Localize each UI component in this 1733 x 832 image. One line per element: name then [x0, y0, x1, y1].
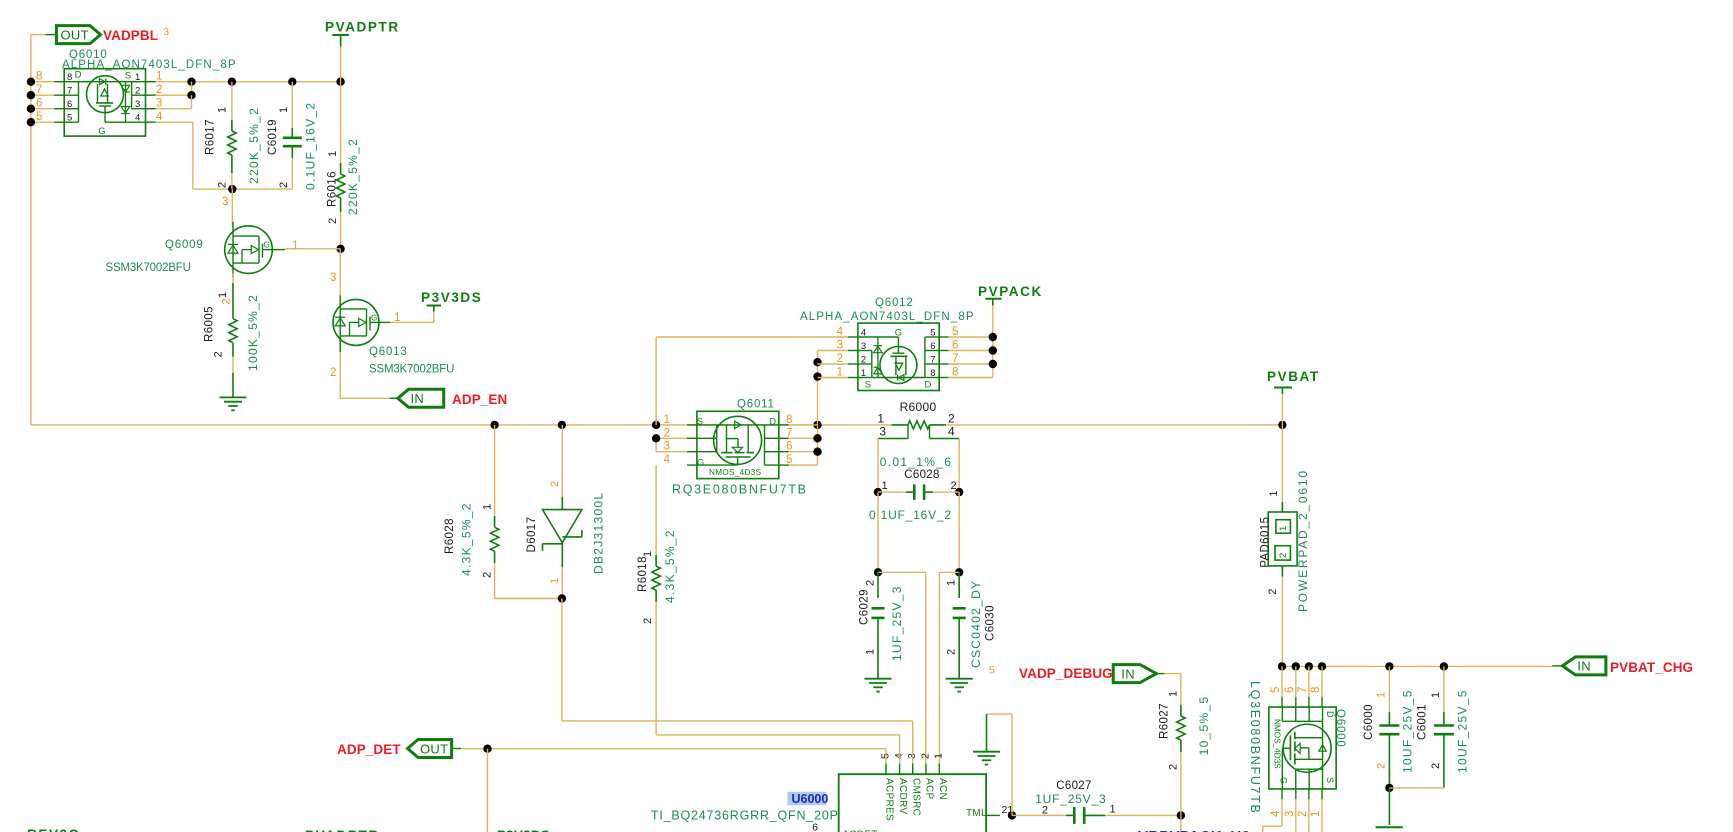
- svg-text:1: 1: [135, 72, 140, 83]
- svg-text:2: 2: [1267, 589, 1279, 595]
- svg-text:4.3K_5%_2: 4.3K_5%_2: [663, 529, 677, 603]
- transistor Q6009 (SSM3K7002BFU): [225, 189, 273, 277]
- diode D6017 (DB2J31300L): [526, 425, 605, 721]
- resistor R6005 100K: [204, 273, 260, 397]
- capacitor C6000 10UF with ground: [1363, 666, 1414, 827]
- svg-text:4: 4: [156, 111, 163, 123]
- svg-text:ADP_EN: ADP_EN: [452, 392, 507, 407]
- svg-text:PVBAT: PVBAT: [1267, 369, 1320, 384]
- svg-text:R6027: R6027: [1159, 703, 1171, 739]
- wire TML node with ground: [973, 714, 1016, 820]
- svg-text:4: 4: [135, 113, 140, 124]
- svg-text:S: S: [697, 417, 703, 427]
- svg-text:TI_BQ24736RGRR_QFN_20P: TI_BQ24736RGRR_QFN_20P: [651, 809, 839, 823]
- net label ADP_EN: [452, 392, 507, 407]
- svg-text:1: 1: [482, 504, 494, 510]
- svg-text:R6016: R6016: [326, 171, 338, 207]
- svg-text:D6017: D6017: [526, 517, 538, 553]
- svg-text:5: 5: [989, 665, 996, 677]
- power flag P3V3DS: [421, 290, 482, 322]
- svg-text:8: 8: [36, 71, 42, 83]
- wire ACPRES from ADP_DET: [488, 749, 887, 764]
- wire ACDRV from R6018: [656, 735, 900, 764]
- svg-text:PVADPTR: PVADPTR: [305, 828, 380, 832]
- svg-text:2: 2: [864, 580, 876, 586]
- svg-text:POWERPAD_2_0610: POWERPAD_2_0610: [1296, 469, 1310, 612]
- svg-text:2: 2: [1375, 763, 1387, 769]
- svg-text:2: 2: [278, 182, 290, 188]
- svg-text:7: 7: [36, 84, 42, 96]
- svg-text:1: 1: [549, 578, 561, 584]
- svg-text:ALPHA_AON7403L_DFN_8P: ALPHA_AON7403L_DFN_8P: [800, 311, 975, 323]
- svg-text:7: 7: [930, 355, 935, 366]
- svg-text:5: 5: [1270, 687, 1282, 693]
- svg-text:1: 1: [1167, 691, 1179, 697]
- svg-text:2: 2: [664, 427, 670, 439]
- svg-text:1: 1: [882, 480, 888, 492]
- svg-text:3: 3: [664, 441, 670, 453]
- svg-text:1: 1: [156, 71, 162, 83]
- label Q6010: [62, 49, 237, 71]
- wire R6016 node down to Q6013: [330, 249, 340, 299]
- port IN ADP_EN: [390, 389, 444, 407]
- capacitor C6001 10UF: [1389, 666, 1469, 788]
- svg-text:1: 1: [217, 292, 229, 298]
- transistor Q6011 (RQ3E080BNFU7TB): [697, 411, 779, 478]
- wires Q6010 right pins and gate node: [146, 71, 345, 194]
- svg-text:1: 1: [1278, 526, 1289, 531]
- svg-text:2: 2: [919, 753, 931, 759]
- svg-text:1: 1: [664, 414, 670, 426]
- transistor Q6010 (ALPHA_AON7403L_DFN_8P): [64, 69, 145, 137]
- svg-text:D: D: [924, 380, 931, 391]
- wires Q6011 pins and right tie bus: [652, 351, 822, 467]
- svg-text:G: G: [264, 241, 270, 250]
- svg-text:2: 2: [837, 353, 843, 365]
- svg-text:SSM3K7002BFU: SSM3K7002BFU: [106, 262, 191, 274]
- wire left rail from OUT port down to main bus: [31, 35, 46, 425]
- svg-text:ACPRES: ACPRES: [884, 778, 895, 821]
- svg-text:4: 4: [1270, 810, 1282, 817]
- resistor R6016 220K: [326, 82, 359, 253]
- power flag PVADPTR: [325, 20, 400, 82]
- svg-text:5: 5: [67, 113, 72, 124]
- svg-text:ALPHA_AON7403L_DFN_8P: ALPHA_AON7403L_DFN_8P: [62, 59, 237, 71]
- svg-text:C6027: C6027: [1056, 780, 1091, 792]
- svg-text:8: 8: [952, 367, 958, 379]
- svg-text:R6018: R6018: [637, 556, 649, 592]
- svg-text:RQ3E080BNFU7TB: RQ3E080BNFU7TB: [672, 483, 808, 497]
- svg-text:1: 1: [278, 107, 290, 113]
- svg-text:SSM3K7002BFU: SSM3K7002BFU: [369, 364, 454, 376]
- wire Q6013 gate to P3V3DS: [379, 321, 434, 323]
- resistor R6017 220K: [204, 82, 260, 189]
- svg-text:6: 6: [36, 98, 42, 110]
- svg-text:3: 3: [879, 425, 886, 439]
- bottom label blue net: [1138, 828, 1250, 832]
- svg-text:Q6009: Q6009: [165, 239, 204, 251]
- svg-text:IN: IN: [1577, 659, 1591, 674]
- svg-text:G: G: [1278, 777, 1288, 784]
- svg-text:NMOS_4D3S: NMOS_4D3S: [1273, 719, 1282, 769]
- svg-text:CMSRC: CMSRC: [910, 778, 921, 816]
- svg-text:3: 3: [906, 753, 918, 759]
- svg-text:0.1UF_16V_2: 0.1UF_16V_2: [869, 508, 952, 522]
- svg-text:1: 1: [1430, 692, 1442, 698]
- svg-text:P3V3DS: P3V3DS: [497, 828, 550, 832]
- svg-text:4.3K_5%_2: 4.3K_5%_2: [459, 502, 473, 576]
- svg-text:Q6012: Q6012: [875, 297, 914, 309]
- svg-text:R6028: R6028: [444, 518, 456, 554]
- svg-text:1UF_25V_3: 1UF_25V_3: [890, 585, 904, 661]
- svg-text:2: 2: [861, 355, 866, 366]
- svg-text:G: G: [371, 313, 377, 322]
- svg-text:C6000: C6000: [1363, 704, 1375, 740]
- svg-text:OUT: OUT: [420, 741, 448, 756]
- IC U6000 TI_BQ24736RGRR_QFN_20P: [812, 753, 1013, 832]
- svg-text:5: 5: [952, 326, 958, 338]
- svg-text:100K_5%_2: 100K_5%_2: [246, 294, 260, 371]
- resistor R6028 4.3K: [444, 425, 562, 599]
- svg-text:5: 5: [786, 454, 792, 466]
- svg-text:D: D: [770, 417, 777, 427]
- svg-text:S: S: [1325, 777, 1335, 783]
- svg-text:2: 2: [642, 618, 654, 624]
- svg-text:1: 1: [945, 580, 957, 586]
- svg-text:8: 8: [930, 368, 935, 379]
- svg-text:1: 1: [327, 151, 339, 157]
- svg-text:G: G: [895, 328, 902, 339]
- svg-text:6: 6: [786, 441, 792, 453]
- port OUT ADP_DET: [408, 740, 492, 832]
- svg-text:5: 5: [36, 111, 42, 123]
- svg-text:S: S: [125, 71, 131, 82]
- svg-text:6: 6: [1284, 687, 1296, 693]
- svg-text:220K_5%_2: 220K_5%_2: [346, 138, 360, 215]
- svg-text:2: 2: [135, 86, 140, 97]
- svg-text:2: 2: [327, 218, 339, 224]
- svg-text:7: 7: [1297, 687, 1309, 693]
- svg-text:1: 1: [877, 411, 884, 425]
- transistor Q6012 (ALPHA_AON7403L_DFN_8P): [858, 323, 939, 391]
- bottom label PVADPTR: [305, 828, 380, 832]
- svg-text:7: 7: [67, 86, 72, 97]
- svg-text:3: 3: [1284, 811, 1296, 817]
- svg-text:U6000: U6000: [792, 792, 829, 806]
- capacitor C6028 0.1UF: [869, 469, 963, 572]
- wires Q6012 pins: [656, 299, 997, 425]
- svg-text:10_5%_5: 10_5%_5: [1197, 696, 1211, 756]
- svg-text:REV2C: REV2C: [27, 827, 80, 832]
- wires C6028 node to ACP/ACN: [874, 568, 964, 763]
- svg-text:2: 2: [216, 182, 228, 188]
- svg-text:8: 8: [1310, 687, 1322, 693]
- svg-text:6: 6: [812, 822, 818, 832]
- svg-text:2: 2: [945, 649, 957, 655]
- svg-text:10UF_25V_5: 10UF_25V_5: [1401, 689, 1415, 773]
- svg-text:6: 6: [952, 340, 958, 352]
- svg-text:1: 1: [216, 107, 228, 113]
- svg-text:Q6011: Q6011: [737, 399, 775, 411]
- net label PVBAT_CHG: [1610, 660, 1693, 675]
- power flag PVPACK: [978, 284, 1043, 299]
- svg-text:2: 2: [1167, 764, 1179, 770]
- labels Q6011: [672, 399, 808, 497]
- svg-text:6: 6: [67, 99, 72, 110]
- resistor R6000 0.01 sense: [877, 400, 959, 492]
- svg-text:VADP_DEBUG: VADP_DEBUG: [1019, 666, 1113, 681]
- wire PVBAT_CHG rail: [1278, 662, 1552, 670]
- svg-text:VBPVPACK_U6: VBPVPACK_U6: [1138, 828, 1250, 832]
- svg-text:CSC0402_DY: CSC0402_DY: [969, 580, 983, 668]
- power flag PVBAT: [1267, 369, 1320, 425]
- svg-text:PVPACK: PVPACK: [978, 284, 1043, 299]
- capacitor C6030 with ground: [945, 572, 996, 691]
- labels Q6000: [1248, 681, 1346, 815]
- svg-text:C6030: C6030: [985, 605, 997, 641]
- resistor R6027 10ohm: [1156, 674, 1210, 816]
- svg-text:1: 1: [1375, 692, 1387, 698]
- capacitor C6027 1UF: [1012, 780, 1185, 832]
- svg-text:1: 1: [1110, 804, 1116, 816]
- svg-text:8: 8: [67, 72, 72, 83]
- svg-text:2: 2: [1297, 811, 1309, 817]
- svg-text:C6019: C6019: [267, 119, 279, 155]
- svg-text:1: 1: [864, 649, 876, 655]
- svg-text:NMOS_4D3S: NMOS_4D3S: [709, 468, 762, 477]
- svg-text:TML: TML: [966, 808, 987, 819]
- svg-text:G: G: [98, 126, 105, 137]
- svg-text:D: D: [75, 70, 82, 81]
- port IN PVBAT_CHG: [1552, 657, 1606, 675]
- svg-text:S: S: [865, 380, 871, 391]
- svg-text:4: 4: [948, 425, 955, 439]
- labels Q6009: [106, 196, 299, 274]
- svg-text:4: 4: [837, 326, 844, 338]
- svg-text:1: 1: [292, 240, 298, 252]
- svg-text:10UF_25V_5: 10UF_25V_5: [1456, 689, 1470, 773]
- capacitor C6029 1UF with ground: [859, 572, 904, 691]
- svg-text:220K_5%_2: 220K_5%_2: [247, 107, 261, 184]
- svg-text:G: G: [697, 458, 704, 468]
- wire CMSRC from D6017 node: [562, 721, 913, 764]
- svg-text:1: 1: [837, 367, 843, 379]
- svg-text:DB2J31300L: DB2J31300L: [592, 492, 606, 574]
- wires Q6010 left pins to rail: [27, 71, 64, 127]
- svg-text:ACP: ACP: [924, 778, 935, 799]
- svg-text:1: 1: [861, 368, 866, 379]
- svg-text:8: 8: [786, 414, 792, 426]
- svg-text:3: 3: [164, 27, 170, 38]
- svg-text:6: 6: [930, 341, 935, 352]
- svg-text:Q6000: Q6000: [1334, 709, 1346, 748]
- svg-text:3: 3: [135, 99, 140, 110]
- svg-text:0.1UF_16V_2: 0.1UF_16V_2: [304, 102, 318, 190]
- svg-text:2: 2: [482, 572, 494, 578]
- svg-text:ACN: ACN: [937, 778, 948, 800]
- port OUT (VADPBL): [45, 26, 100, 44]
- svg-text:0.01_1%_6: 0.01_1%_6: [880, 455, 952, 469]
- svg-text:2: 2: [212, 351, 224, 357]
- svg-text:7: 7: [786, 427, 792, 439]
- svg-text:2: 2: [1430, 763, 1442, 769]
- svg-text:2: 2: [549, 481, 561, 487]
- svg-text:4: 4: [664, 454, 671, 466]
- svg-text:3: 3: [156, 98, 162, 110]
- svg-text:ADP_DET: ADP_DET: [337, 742, 401, 757]
- svg-text:Q6013: Q6013: [369, 346, 408, 358]
- svg-text:2: 2: [1042, 805, 1048, 817]
- svg-text:2: 2: [220, 298, 232, 304]
- svg-text:PVADPTR: PVADPTR: [325, 20, 400, 35]
- svg-text:3: 3: [837, 340, 843, 352]
- main bus wire PVADPTR->PVBAT: [31, 421, 1287, 429]
- svg-text:PAD6015: PAD6015: [1260, 517, 1272, 568]
- capacitor C6019 0.1UF: [267, 82, 318, 190]
- svg-text:ACDRV: ACDRV: [897, 778, 908, 814]
- svg-text:C6029: C6029: [859, 589, 871, 625]
- labels Q6012: [800, 297, 975, 323]
- bottom label P3V3DS: [497, 828, 550, 832]
- svg-text:C6028: C6028: [904, 469, 939, 481]
- pad PAD6015 POWERPAD: [1260, 425, 1311, 667]
- svg-text:3: 3: [330, 272, 336, 284]
- label U6000: [651, 792, 839, 823]
- svg-text:1: 1: [933, 753, 945, 759]
- resistor R6018 4.3K: [637, 465, 677, 735]
- svg-text:1: 1: [1310, 811, 1322, 817]
- svg-text:2: 2: [156, 84, 162, 96]
- svg-text:1: 1: [1268, 490, 1280, 496]
- svg-text:LQ3E080BNFU7TB: LQ3E080BNFU7TB: [1248, 681, 1262, 815]
- svg-text:R6005: R6005: [204, 306, 216, 342]
- svg-text:2: 2: [1278, 553, 1289, 558]
- svg-text:IN: IN: [411, 391, 425, 406]
- svg-text:D: D: [1325, 711, 1335, 718]
- svg-text:VADPBL: VADPBL: [103, 28, 158, 43]
- svg-text:P3V3DS: P3V3DS: [421, 290, 482, 305]
- svg-text:7: 7: [952, 353, 958, 365]
- ground below R6005: [220, 397, 247, 410]
- svg-text:OUT: OUT: [61, 27, 89, 42]
- wire Q6009 gate to R6016 node: [272, 248, 340, 251]
- svg-text:4: 4: [893, 753, 905, 759]
- svg-text:R6000: R6000: [900, 400, 937, 414]
- svg-text:4: 4: [861, 328, 866, 339]
- svg-text:3: 3: [222, 196, 228, 208]
- svg-text:IN: IN: [1121, 666, 1135, 681]
- svg-text:5: 5: [930, 328, 935, 339]
- transistor Q6013 (SSM3K7002BFU): [333, 295, 379, 349]
- svg-text:C6001: C6001: [1417, 704, 1429, 740]
- net label ADP_DET: [337, 742, 401, 757]
- svg-text:3: 3: [861, 341, 866, 352]
- svg-text:5: 5: [879, 753, 891, 759]
- svg-text:PVBAT_CHG: PVBAT_CHG: [1610, 660, 1693, 675]
- labels Q6013: [330, 312, 454, 379]
- svg-text:2: 2: [330, 367, 336, 379]
- svg-text:2: 2: [951, 480, 957, 492]
- net label VADPBL: [103, 27, 170, 43]
- net label VADP_DEBUG: [989, 665, 1113, 682]
- transistor Q6000 (LQ3E080BNFU7TB): [1263, 666, 1336, 832]
- svg-text:1: 1: [642, 551, 654, 557]
- svg-text:2: 2: [948, 411, 955, 425]
- bottom label REV2C: [27, 827, 80, 832]
- port IN VADP_DEBUG: [1113, 665, 1156, 683]
- svg-text:R6017: R6017: [204, 119, 216, 155]
- wire Q6013 source to ADP_EN port: [340, 339, 398, 398]
